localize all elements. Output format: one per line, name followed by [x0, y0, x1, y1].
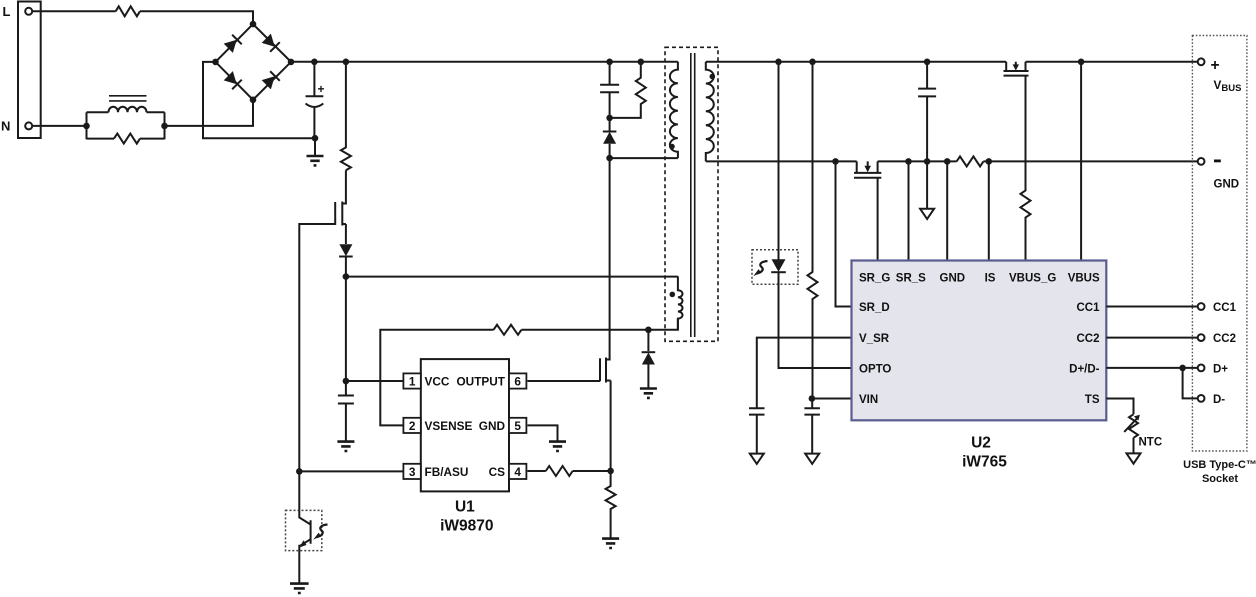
- wire Q3 gate to SR_G pin: [877, 178, 879, 261]
- node filter-right: [161, 123, 168, 130]
- node SR_D: [832, 158, 839, 165]
- snubber capacitor C3: [600, 62, 619, 118]
- capacitor C4 output: [918, 62, 936, 162]
- svg-text:VSENSE: VSENSE: [425, 419, 473, 433]
- transformer T1 secondary winding: [706, 62, 714, 162]
- node bridge right: [288, 59, 295, 66]
- node VBUS pin: [1078, 59, 1085, 66]
- wire FB node to pin3: [299, 470, 403, 472]
- svg-text:D+/D-: D+/D-: [1069, 364, 1100, 376]
- ground V_SR triangle: [750, 454, 764, 464]
- transformer T1 primary polarity dot: [669, 144, 675, 150]
- wire bridge negative to cap bottom: [203, 62, 315, 138]
- svg-text:1: 1: [409, 375, 416, 389]
- optocoupler U3 LED box: [752, 250, 798, 285]
- node IS: [986, 158, 993, 165]
- wire GND pin to U2: [946, 161, 948, 260]
- optocoupler U3 phototransistor box: [286, 510, 322, 550]
- optocoupler U3 LED: [771, 259, 786, 272]
- svg-text:+: +: [1211, 57, 1220, 74]
- wire VIN node to U2: [813, 398, 852, 400]
- secondary top rail: [706, 61, 1006, 63]
- terminal VBUS+: [1198, 58, 1205, 65]
- svg-text:2: 2: [409, 419, 416, 433]
- ground NTC triangle: [1127, 453, 1141, 463]
- transistor Q1 MOSFET: [335, 202, 346, 226]
- transformer T1 secondary polarity dot: [710, 74, 716, 80]
- wire Q1 source to diode: [345, 224, 347, 244]
- bridge diode bottom-left: [223, 71, 241, 89]
- wire rail to opto LED: [778, 62, 780, 260]
- pin 6 box: [509, 373, 526, 388]
- node D+/D- split: [1179, 365, 1186, 372]
- terminal CC2: [1198, 334, 1205, 341]
- wire LED cathode to OPTO pin: [779, 272, 852, 368]
- svg-text:TS: TS: [1085, 394, 1100, 406]
- secondary ground rail: [706, 160, 857, 162]
- svg-text:3: 3: [409, 465, 416, 479]
- node bridge bottom: [250, 97, 257, 104]
- transformer T1 aux polarity dot: [670, 292, 676, 298]
- wire opto emitter to ground: [298, 551, 300, 583]
- diode D2 VCC: [339, 244, 353, 256]
- capacitor C6 VIN: [804, 399, 820, 454]
- svg-text:Socket: Socket: [1202, 473, 1238, 485]
- node N-filter-left: [83, 123, 90, 130]
- bridge diode top-left: [223, 35, 241, 53]
- wire V_SR to cap: [757, 338, 852, 409]
- wire diode to VCC node: [345, 257, 347, 277]
- svg-text:FB/ASU: FB/ASU: [425, 465, 469, 479]
- wire switch drain: [606, 158, 610, 359]
- node CS: [607, 468, 614, 475]
- bridge diode bottom-right: [261, 71, 279, 89]
- resistor R5 sense: [606, 471, 616, 538]
- node VCC: [343, 378, 350, 385]
- node aux sense: [645, 327, 652, 334]
- svg-text:D-: D-: [1213, 394, 1225, 406]
- pin 5 box: [509, 418, 526, 433]
- svg-text:GND: GND: [940, 272, 966, 284]
- wire R4 to Q2 source node: [573, 470, 611, 472]
- ground opto: [290, 584, 309, 593]
- wire SR_D to U2: [836, 161, 852, 306]
- svg-text:VCC: VCC: [425, 375, 450, 389]
- svg-text:U1: U1: [455, 499, 475, 516]
- resistor R4 CS: [546, 466, 573, 476]
- svg-text:USB Type-C™: USB Type-C™: [1183, 459, 1256, 471]
- terminal CC1: [1198, 303, 1205, 310]
- svg-text:iW9870: iW9870: [440, 518, 493, 535]
- terminal GND: [1198, 158, 1205, 165]
- svg-text:CC2: CC2: [1213, 333, 1236, 345]
- svg-text:NTC: NTC: [1139, 437, 1163, 449]
- wire snubber node to D1: [609, 118, 611, 158]
- ground VCC cap: [337, 442, 354, 451]
- svg-text:VIN: VIN: [859, 394, 878, 406]
- transformer T1 primary winding: [670, 62, 678, 158]
- svg-text:U2: U2: [971, 435, 991, 452]
- wire SR_S to U2: [908, 161, 910, 260]
- pin 1 box: [403, 373, 420, 388]
- wire D+/D-: [1106, 367, 1197, 369]
- svg-text:VBUS: VBUS: [1068, 272, 1100, 284]
- node snubber: [606, 115, 613, 122]
- snubber resistor R6: [610, 62, 646, 118]
- bridge diode top-right: [261, 33, 279, 51]
- resistor R3 VSENSE: [494, 325, 522, 335]
- wire L to fuse: [32, 10, 116, 12]
- ground primary bulk: [314, 138, 316, 155]
- wire VCC node to pin1: [346, 380, 404, 382]
- wire D3 to ground: [647, 365, 649, 388]
- ground aux diode: [640, 389, 657, 398]
- node rail snubber resistor: [638, 59, 645, 66]
- wire CS pin4 to resistor: [527, 470, 545, 472]
- wire primary bottom: [610, 157, 678, 159]
- wire N to filter: [32, 125, 86, 127]
- terminal N: [25, 122, 32, 129]
- node rail startup resistor: [343, 59, 350, 66]
- svg-text:5: 5: [514, 419, 521, 433]
- thermistor NTC strike arrow: [1124, 417, 1138, 432]
- svg-text:SR_D: SR_D: [859, 302, 890, 314]
- node VIN: [809, 395, 816, 402]
- node output cap: [924, 59, 931, 66]
- pin 4 box: [509, 464, 526, 479]
- pin 2 box: [403, 418, 420, 433]
- svg-text:D+: D+: [1213, 363, 1228, 375]
- svg-text:GND: GND: [1214, 179, 1240, 191]
- node FB/ASU: [296, 468, 303, 475]
- svg-text:6: 6: [514, 375, 521, 389]
- wire R3 to aux bottom: [521, 319, 678, 330]
- wire IS to U2: [988, 161, 990, 260]
- wire NTC to ground: [1133, 438, 1135, 454]
- svg-text:IS: IS: [985, 272, 996, 284]
- common-mode choke / filter L1 frame: [87, 112, 165, 139]
- wire cap node to ground triangle: [926, 161, 928, 208]
- inductor L1 winding: [109, 107, 147, 113]
- resistor R7 current shunt: [957, 156, 984, 166]
- node opto LED feed: [775, 59, 782, 66]
- Q1 gate wire to FB/ASU line: [299, 224, 335, 510]
- optocoupler U3 phototransistor: [299, 510, 310, 550]
- ground secondary triangle: [920, 209, 934, 219]
- optocoupler U3 emitter arrow: [300, 540, 307, 547]
- primary top rail: [291, 61, 678, 63]
- Q4 substrate arrow: [1013, 64, 1019, 70]
- op IC U1 body: [421, 359, 509, 491]
- label minus: [1214, 159, 1221, 162]
- terminal D+: [1198, 365, 1205, 372]
- svg-text:CC1: CC1: [1213, 302, 1237, 314]
- thermistor NTC: [1129, 414, 1138, 437]
- capacitor C5 V_SR: [749, 408, 765, 453]
- svg-text:N: N: [1, 119, 10, 134]
- wire filter to bridge bottom: [165, 100, 254, 126]
- wire VBUS pin to U2: [1080, 62, 1082, 261]
- rail after Q4 to VBUS terminal: [1026, 61, 1198, 63]
- fuse resistor F1: [116, 6, 140, 16]
- USB socket dashed box: [1192, 36, 1247, 452]
- wire aux supply to transformer aux winding: [346, 276, 678, 278]
- ground R5: [602, 539, 619, 548]
- controller IC U2 body: [852, 261, 1107, 421]
- node primary return: [606, 155, 613, 162]
- wire R2 to Q1 drain: [342, 170, 346, 203]
- transistor Q2 main switch MOSFET: [600, 358, 611, 383]
- node VIN feed: [809, 59, 816, 66]
- transformer T1 core: [691, 53, 695, 337]
- wire CC1: [1106, 306, 1197, 308]
- svg-text:V_SR: V_SR: [859, 333, 890, 345]
- node rail cap C1: [311, 59, 318, 66]
- svg-text:SR_S: SR_S: [896, 272, 926, 284]
- svg-text:CS: CS: [489, 465, 506, 479]
- svg-text:CC2: CC2: [1076, 333, 1099, 345]
- wire GND pin5 to ground: [527, 425, 557, 440]
- diode D3 aux clamp: [642, 352, 656, 364]
- terminal L: [25, 8, 32, 15]
- bulk capacitor C1 polarized: [306, 62, 324, 138]
- node GND pin: [944, 158, 951, 165]
- svg-text:L: L: [3, 4, 11, 19]
- svg-text:OPTO: OPTO: [859, 364, 891, 376]
- node rail snubber cap: [606, 59, 613, 66]
- wire VSENSE pin2 to aux divider: [380, 330, 493, 426]
- svg-text:4: 4: [514, 465, 521, 479]
- transistor Q4 VBUS switch MOSFET: [1004, 62, 1029, 76]
- transistor Q3 SR MOSFET: [854, 161, 881, 177]
- pin 3 box: [403, 464, 420, 479]
- svg-text:OUTPUT: OUTPUT: [457, 375, 506, 389]
- capacitor C2 VCC: [338, 396, 354, 441]
- optocoupler U3 LED light arrow: [757, 261, 768, 274]
- transformer T1 dashed box: [665, 47, 718, 341]
- svg-text:SR_G: SR_G: [859, 272, 890, 284]
- rail to GND terminal: [983, 160, 1197, 162]
- wire Q4 gate through R8 to VBUS_G: [1021, 76, 1031, 261]
- Q3 substrate arrow: [864, 166, 871, 172]
- inductor L1 core lines: [109, 96, 147, 101]
- wire TS to NTC: [1106, 399, 1133, 415]
- wire node down to VCC pin: [345, 277, 347, 396]
- svg-text:+: +: [318, 82, 325, 96]
- terminal D-: [1198, 395, 1205, 402]
- wire Q2 source to CS node: [610, 381, 612, 471]
- startup resistor R2: [341, 62, 351, 170]
- node aux supply: [343, 273, 350, 280]
- wire fuse to bridge top: [140, 11, 253, 24]
- node bridge left: [212, 59, 219, 66]
- transformer T1 aux winding: [678, 276, 683, 329]
- wire node to diode D3: [647, 330, 649, 351]
- diode D1 clamp: [603, 132, 617, 144]
- wire to D- terminal: [1183, 368, 1198, 399]
- svg-text:GND: GND: [479, 419, 506, 433]
- node bridge top: [250, 21, 257, 28]
- node cap bottom: [312, 135, 319, 142]
- svg-text:CC1: CC1: [1076, 302, 1100, 314]
- wire Q2 gate to pin6: [527, 380, 600, 382]
- svg-text:VBUS_G: VBUS_G: [1009, 272, 1056, 284]
- ground U1: [549, 442, 566, 451]
- node cap return: [924, 158, 931, 165]
- svg-text:iW765: iW765: [962, 454, 1007, 471]
- AC input connector J1: [18, 2, 41, 139]
- wire CC2: [1106, 337, 1197, 339]
- optocoupler U3 light arrow: [317, 525, 328, 538]
- rail after Q3: [878, 160, 957, 162]
- node SR_S: [905, 158, 912, 165]
- resistor R9 VIN feed: [808, 62, 818, 399]
- damping resistor R1: [114, 134, 140, 144]
- bridge rectifier BR1 frame: [216, 24, 292, 100]
- ground VIN triangle: [805, 454, 819, 464]
